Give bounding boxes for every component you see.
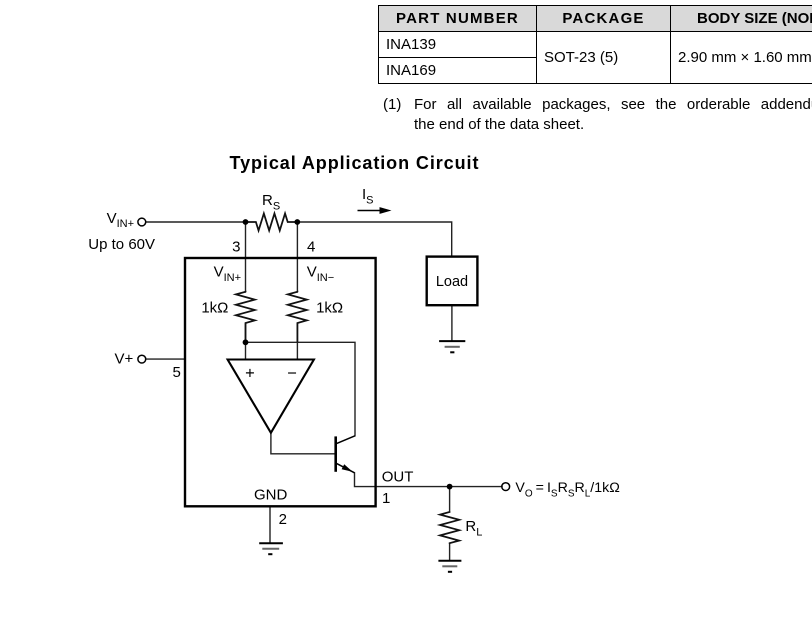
wire output node to RL: [449, 487, 451, 512]
ground (RL): [438, 561, 461, 572]
heading Typical Application Circuit: [230, 153, 480, 174]
wire GND pin 2: [269, 506, 271, 543]
terminal VO: [502, 483, 510, 491]
wire R2 bottom to op-amp − input: [296, 324, 298, 359]
svg-text:Load: Load: [436, 274, 468, 290]
svg-text:IS: IS: [362, 186, 374, 207]
wire R1 bottom to op-amp + input: [245, 324, 247, 359]
svg-text:VO=ISRSRL/1kΩ: VO=ISRSRL/1kΩ: [515, 480, 619, 499]
svg-text:3: 3: [232, 239, 240, 256]
terminal VIN+: [138, 218, 146, 226]
wire node 4 to Load: [297, 222, 451, 256]
op-amp U1: [228, 360, 314, 433]
wire V+ terminal to pin 5: [147, 358, 186, 360]
svg-text:V+: V+: [115, 351, 134, 368]
svg-text:−: −: [287, 365, 297, 383]
node pin3 junction: [243, 219, 249, 225]
resistor R2 1kΩ right: [288, 292, 307, 343]
IC box U1: [185, 258, 376, 506]
wire pin 3 vertical: [245, 222, 247, 292]
svg-text:1kΩ: 1kΩ: [316, 299, 343, 316]
svg-text:5: 5: [173, 364, 181, 381]
svg-text:4: 4: [307, 239, 315, 256]
wire RL to ground: [449, 544, 451, 561]
resistor RS: [246, 214, 298, 231]
svg-text:+: +: [245, 365, 255, 383]
svg-text:1kΩ: 1kΩ: [201, 299, 228, 316]
resistor RL: [440, 512, 459, 544]
transistor Q1: [336, 436, 355, 473]
svg-text:OUT: OUT: [382, 469, 414, 486]
svg-text:VIN+: VIN+: [107, 210, 134, 230]
ground (GND pin 2): [259, 543, 283, 554]
wire VIN+ terminal to node 3: [147, 221, 246, 223]
svg-text:VIN−: VIN−: [307, 264, 334, 285]
wire pin 4 vertical: [296, 222, 298, 292]
ground (load): [439, 341, 465, 352]
current arrow IS: [358, 207, 392, 214]
footnote (1): [383, 95, 401, 115]
svg-text:RL: RL: [465, 518, 482, 539]
node pin4 junction: [294, 219, 300, 225]
wire Load to ground: [451, 305, 453, 341]
svg-text:VIN+: VIN+: [214, 264, 241, 285]
svg-text:2: 2: [279, 511, 287, 528]
wire feedback node to collector: [246, 342, 356, 436]
package table: [378, 5, 812, 84]
load box: [427, 257, 478, 306]
svg-text:Up to 60V: Up to 60V: [88, 236, 155, 253]
resistor R1 1kΩ left: [236, 292, 255, 343]
wire op-amp output to base: [271, 433, 335, 454]
svg-text:1: 1: [382, 490, 390, 507]
svg-text:RS: RS: [262, 192, 280, 213]
wire emitter to OUT pin: [355, 473, 503, 487]
node output junction: [447, 484, 453, 490]
svg-text:GND: GND: [254, 487, 288, 504]
terminal V+: [138, 355, 146, 363]
node feedback junction: [243, 339, 249, 345]
